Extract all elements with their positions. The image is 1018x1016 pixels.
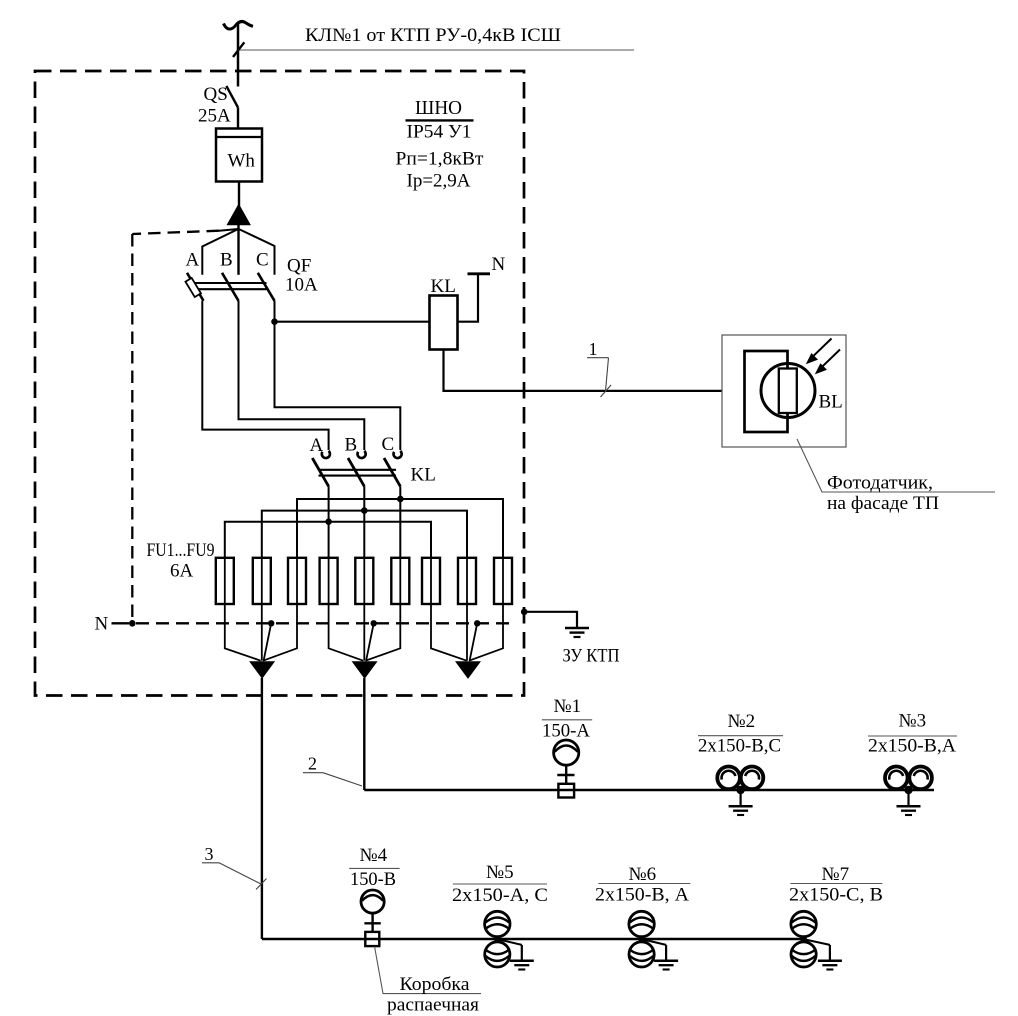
svg-text:№5: №5 — [486, 862, 514, 883]
svg-text:на фасаде ТП: на фасаде ТП — [827, 493, 939, 514]
wire fan to phase A — [202, 229, 238, 275]
wire feeder line 3 — [262, 938, 806, 941]
svg-text:FU1...FU9: FU1...FU9 — [147, 540, 215, 561]
wire group1 N tap — [264, 623, 272, 660]
ground №7 — [805, 940, 842, 970]
svg-text:Ір=2,9А: Ір=2,9А — [407, 171, 471, 192]
ground №6 — [643, 940, 678, 970]
wire group3 N tap — [470, 623, 478, 660]
bus phase C — [297, 499, 503, 558]
lamp №2 right circle — [741, 767, 764, 790]
node group1 N tap — [268, 620, 274, 626]
bus phase A — [225, 522, 431, 558]
lamp №2 left circle — [717, 767, 740, 790]
wire pole B to contact B — [239, 301, 365, 450]
ground №2 — [729, 790, 753, 815]
contact KL tie bar lower — [319, 475, 397, 477]
breaker QF tie bar lower — [190, 288, 267, 290]
svg-text:Рп=1,8кВт: Рп=1,8кВт — [396, 149, 485, 170]
cable slash mark — [233, 42, 244, 57]
svg-text:№2: №2 — [728, 711, 756, 732]
wire group3 converge — [431, 604, 467, 661]
SECTION: incoming cable — [224, 22, 635, 87]
svg-text:№3: №3 — [899, 711, 927, 732]
label №7 fraction line — [791, 883, 883, 885]
node phase A bus junction — [325, 518, 332, 525]
disconnect switch QS blade — [226, 86, 238, 108]
ground ЗУ КТП — [565, 628, 589, 637]
meter Wh terminal strip line — [216, 136, 262, 138]
wire contact C down to fuse 6 — [399, 486, 401, 558]
svg-text:2х150-В,С: 2х150-В,С — [698, 736, 781, 757]
contact KL-B fixed hook — [357, 451, 365, 458]
svg-text:А: А — [186, 250, 200, 271]
wire lamp №4 stem — [371, 913, 373, 932]
ground №3 — [897, 790, 921, 815]
svg-text:2х150-В, А: 2х150-В, А — [595, 885, 689, 906]
label 3 leader — [219, 863, 261, 884]
fuse FU4 — [320, 558, 338, 604]
node enclosure earth tap — [521, 609, 528, 616]
label №2 fraction line — [698, 735, 783, 737]
node coil tap on phase C — [271, 318, 278, 325]
meter Wh box — [216, 129, 262, 182]
svg-text:№6: №6 — [629, 864, 657, 885]
label №1 fraction line — [542, 719, 592, 721]
breaker QF blade B — [222, 273, 239, 301]
svg-text:Коробка: Коробка — [400, 974, 471, 995]
svg-text:150-В: 150-В — [350, 869, 396, 890]
breaker QF tie bar upper — [190, 282, 267, 284]
label 2 underline — [303, 772, 323, 774]
ground №5 — [499, 940, 534, 970]
fuse FU3 — [288, 558, 306, 604]
contact KL-A fixed hook — [322, 451, 330, 458]
svg-text:2: 2 — [308, 754, 317, 774]
svg-text:QF: QF — [287, 256, 311, 277]
wire Wh to arrow — [238, 182, 240, 208]
lamp №3 right circle — [909, 767, 932, 790]
label 1 leader — [606, 358, 609, 391]
wire group2 N tap — [366, 623, 374, 660]
node №3 tap — [904, 786, 912, 794]
label №5 fraction line — [453, 883, 547, 885]
svg-text:ІР54 У1: ІР54 У1 — [407, 122, 472, 143]
lamp №1 inner arc — [555, 746, 578, 752]
svg-text:С: С — [256, 250, 269, 271]
breaker QF handle — [185, 278, 200, 297]
contact KL-C blade — [384, 458, 400, 486]
photocell BL circle — [761, 364, 815, 418]
contact KL-A blade — [312, 458, 328, 486]
wire phase C to KL coil — [275, 321, 430, 323]
wire N dashed bus — [136, 622, 516, 624]
wire fan to phase C — [239, 229, 275, 275]
svg-text:150-А: 150-А — [542, 721, 590, 742]
label №3 fraction line — [868, 735, 957, 737]
svg-text:ЗУ КТП: ЗУ КТП — [563, 646, 620, 667]
bus phase B — [262, 511, 467, 558]
svg-text:KL: KL — [431, 276, 456, 297]
svg-text:1: 1 — [589, 339, 598, 359]
wire QS to Wh — [237, 108, 239, 129]
breaker QF blade C — [258, 273, 275, 301]
light arrow 2 — [822, 350, 841, 368]
svg-text:N: N — [492, 254, 506, 275]
wire lamp №1 stem — [565, 765, 567, 784]
arrow feed-in solid triangle — [227, 205, 250, 225]
fuse FU7 — [422, 558, 440, 604]
node №6 tap — [638, 936, 645, 943]
svg-text:№7: №7 — [822, 864, 850, 885]
wire fan to N stub — [219, 229, 238, 231]
fuse FU9 — [494, 558, 512, 604]
svg-text:В: В — [345, 435, 358, 456]
light arrow 1 — [813, 339, 832, 357]
wire phase B trunk — [237, 225, 239, 275]
node: supply label underline — [240, 49, 634, 51]
svg-text:25А: 25А — [198, 106, 231, 127]
node phase B bus junction — [361, 507, 368, 514]
lamp №4 circle — [361, 890, 384, 913]
node group2 N tap — [371, 620, 377, 626]
svg-text:3: 3 — [205, 844, 214, 864]
label 1 slash tick — [601, 385, 612, 397]
leader коробка callout — [375, 946, 482, 993]
svg-text:№1: №1 — [554, 696, 582, 717]
label 3 slash tick — [256, 879, 267, 890]
junction box №1 — [558, 784, 574, 798]
label fraction line — [406, 119, 474, 121]
svg-text:10А: 10А — [285, 275, 318, 296]
wire pole C to contact C — [275, 301, 401, 450]
label 3 underline — [202, 862, 219, 864]
arrow reserve output — [456, 662, 480, 678]
svg-text:2х150-А, С: 2х150-А, С — [452, 885, 548, 906]
svg-text:Wh: Wh — [228, 151, 256, 172]
svg-text:KL: KL — [411, 465, 436, 486]
lamp №4 stem tick — [364, 922, 380, 924]
svg-text:ШНО: ШНО — [415, 97, 462, 119]
svg-text:распаечная: распаечная — [387, 995, 479, 1016]
wire N dashed vertical run — [131, 234, 133, 623]
svg-text:Фотодатчик,: Фотодатчик, — [827, 473, 933, 494]
fuse FU2 — [253, 558, 271, 604]
breaker QF blade A — [187, 273, 204, 301]
svg-text:2х150-В,А: 2х150-В,А — [868, 736, 956, 757]
arrow output line 3 — [250, 662, 274, 678]
node phase C bus junction — [397, 496, 404, 503]
label №4 fraction line — [349, 867, 399, 869]
photodetector outer housing box — [722, 335, 846, 447]
node №2 tap — [736, 786, 744, 794]
svg-text:№4: №4 — [360, 845, 388, 866]
contact KL-B blade — [348, 458, 364, 486]
svg-text:N: N — [95, 614, 109, 635]
lamp №1 stem tick — [557, 774, 574, 776]
fuse FU8 — [458, 558, 476, 604]
svg-text:2х150-С, В: 2х150-С, В — [789, 885, 883, 906]
wire line 3 drop — [261, 678, 263, 939]
wire contact A down to fuse 4 — [328, 486, 330, 558]
contact KL-C fixed hook — [393, 451, 401, 458]
terminal N bar — [468, 272, 491, 275]
lamp №5 upper circle — [485, 911, 510, 936]
lamp №4 inner arc — [362, 895, 383, 901]
fuse FU1 — [216, 558, 234, 604]
enclosure ШНО dashed border — [35, 71, 524, 696]
wire incoming supply vertical — [237, 23, 240, 87]
junction box №4 — [365, 932, 379, 946]
lamp №1 circle — [554, 740, 579, 765]
label 1 underline — [587, 357, 609, 359]
wire group2 converge — [329, 604, 364, 661]
photodetector bracket rectangle — [745, 351, 788, 432]
svg-text:BL: BL — [819, 392, 843, 413]
leader photodetector callout — [797, 439, 995, 492]
photocell window rectangle — [779, 369, 797, 414]
wire group1 converge — [225, 604, 261, 661]
relay coil KL — [430, 296, 458, 350]
cable break squiggle — [224, 22, 254, 30]
wire KL coil to N — [458, 274, 479, 322]
wire contact B down to fuse 5 — [363, 486, 365, 558]
node №5 tap — [494, 936, 501, 943]
svg-text:С: С — [382, 434, 395, 455]
lamp №6 lower circle — [629, 942, 654, 967]
node N terminal — [129, 620, 136, 627]
wire pole A to contact A — [202, 301, 328, 450]
lamp №6 upper circle — [629, 911, 654, 936]
wire KL coil to photodetector — [444, 350, 723, 391]
svg-text:QS: QS — [204, 84, 228, 105]
wire earth connection — [524, 612, 577, 628]
label №6 fraction line — [598, 883, 690, 885]
wire line 2 drop — [363, 678, 365, 790]
fuse FU5 — [355, 558, 373, 604]
wire N label stub — [112, 622, 130, 624]
svg-text:6А: 6А — [170, 561, 194, 582]
node №7 tap — [800, 936, 807, 943]
wire feeder line 2 — [364, 789, 934, 792]
fuse FU6 — [391, 558, 409, 604]
node group3 N tap — [474, 620, 480, 626]
wire N dashed horizontal run — [132, 231, 219, 234]
arrow output line 2 — [353, 662, 377, 678]
lamp №3 left circle — [885, 767, 908, 790]
lamp №7 upper circle — [791, 911, 816, 936]
svg-text:В: В — [220, 250, 233, 271]
contact KL tie bar upper — [319, 469, 397, 471]
lamp №7 lower circle — [791, 942, 816, 967]
lamp №5 lower circle — [485, 942, 510, 967]
svg-text:КЛ№1 от КТП РУ-0,4кВ ІСШ: КЛ№1 от КТП РУ-0,4кВ ІСШ — [305, 25, 561, 46]
label 2 leader — [323, 773, 362, 786]
